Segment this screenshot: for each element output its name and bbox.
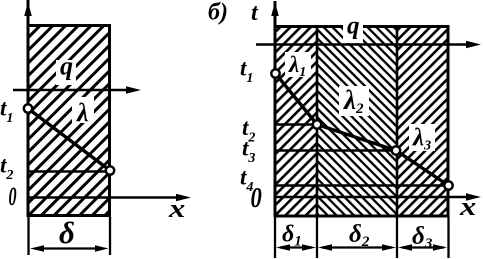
delta1 dimension arrows [280,246,312,248]
svg-text:0: 0 [9,182,17,211]
halo for lambda1 label [285,52,311,77]
wall hatch fill [29,24,110,217]
node t3 circle [392,146,400,154]
wall right edge [108,24,111,217]
wall right edge [447,25,450,217]
wall bottom edge [27,214,111,217]
layer 2 hatch fill [317,25,397,217]
svg-text:λ: λ [76,98,89,127]
layer 1 hatch fill [276,25,317,217]
svg-text:x: x [168,195,185,223]
t4 level line [275,184,448,186]
dimension extension line right [447,217,449,258]
q heat-flux arrow [13,89,130,92]
t axis (vertical) [274,1,277,217]
node t1 circle [271,69,279,77]
wall top edge [27,24,111,27]
svg-text:δ2: δ2 [349,221,370,250]
layer boundary 1-2 [316,25,319,217]
node t4 circle [444,181,452,189]
svg-text:x: x [459,193,476,221]
svg-text:б): б) [208,0,228,26]
halo for lambda3 label [409,124,435,151]
wall top edge [274,25,449,28]
svg-text:t2: t2 [0,153,13,184]
temperature gradient line lambda [28,109,110,171]
svg-text:t1: t1 [0,96,13,127]
t2 level line [275,123,317,125]
svg-text:δ: δ [59,215,75,250]
dimension extension line axis [274,217,276,258]
x axis [275,196,470,199]
wall bottom edge [274,215,449,218]
dimension extension line boundary2 [396,217,398,258]
t2 level line [28,170,111,173]
node t2 circle [106,166,114,174]
dimension extension line right [109,217,111,255]
t axis (vertical) [27,0,30,217]
halo for lambda2 label [339,86,369,116]
layer boundary 2-3 [396,25,399,217]
svg-text:δ3: δ3 [412,223,433,252]
svg-text:q: q [347,13,360,40]
svg-text:δ1: δ1 [282,222,302,250]
delta dimension line with arrows [36,247,103,249]
svg-text:t1: t1 [240,56,253,87]
halo for q label [56,60,76,85]
svg-text:t: t [251,0,259,26]
halo for lambda label [72,97,94,123]
dimension extension line boundary1 [316,217,318,258]
svg-text:q: q [60,52,73,81]
delta3 dimension arrows [402,246,444,248]
node t1 circle [24,104,32,112]
delta2 dimension arrows [322,246,392,248]
q heat-flux arrow [256,43,470,46]
t3 level line [275,149,395,151]
x axis [28,196,181,199]
halo for q label right [343,20,363,43]
svg-text:0: 0 [251,181,262,213]
t axis arrowhead [24,2,32,16]
layer 3 hatch fill [397,25,448,217]
temperature polyline [276,74,449,186]
node t2 circle [313,120,321,128]
t axis arrowhead [271,2,279,16]
dimension extension line left [27,217,29,255]
